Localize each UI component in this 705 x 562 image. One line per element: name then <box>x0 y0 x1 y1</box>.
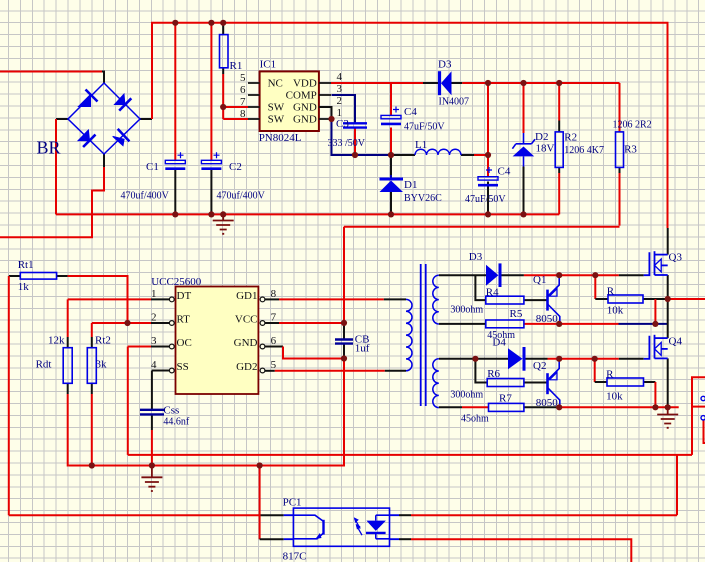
resistor R7 <box>489 403 524 411</box>
svg-text:COMP: COMP <box>286 90 317 102</box>
node edge pin circles <box>701 396 705 420</box>
UCC pin numbers <box>151 288 277 371</box>
wire D2 column <box>523 83 525 133</box>
svg-text:DT: DT <box>177 290 192 302</box>
svg-text:1uf: 1uf <box>355 343 370 355</box>
svg-text:1206 2R2: 1206 2R2 <box>613 120 652 131</box>
junction (594.7,358.8) <box>592 356 598 362</box>
bridge diode top-left <box>79 90 98 107</box>
wire top DC rail <box>152 23 668 228</box>
wire bridge right stub <box>140 118 152 120</box>
svg-text:R6: R6 <box>487 368 500 380</box>
svg-text:2: 2 <box>151 312 157 324</box>
WIRES-MID <box>9 276 692 515</box>
wire bridge left stub <box>56 118 68 120</box>
resistor R2 <box>555 132 563 168</box>
wire PC1 lower-right row <box>399 538 411 540</box>
wire Rt1 right to RT <box>57 275 68 277</box>
transformer secondary bottom winding <box>433 359 439 408</box>
svg-text:5: 5 <box>240 72 246 84</box>
wire rail A feedback <box>128 454 692 456</box>
svg-text:IC1: IC1 <box>260 59 277 71</box>
junction (259.6,465.5) <box>257 462 263 468</box>
svg-text:D3: D3 <box>438 59 452 71</box>
wire DT row <box>68 298 151 300</box>
wire pin1 node to y155 <box>332 119 392 155</box>
wire R10k-2 right <box>644 381 656 383</box>
diode D1 BYV26C <box>380 175 404 192</box>
transistor Q1 8050 <box>548 275 560 324</box>
svg-text:UCC25600: UCC25600 <box>151 276 202 288</box>
junction (667.7,299) <box>665 296 671 302</box>
wire OC column to rail A <box>127 347 129 455</box>
junction (559.2,358.8) <box>556 356 562 362</box>
transformer primary winding <box>406 299 412 370</box>
wire C3 bottom <box>354 127 356 155</box>
svg-text:470uf/400V: 470uf/400V <box>121 191 170 202</box>
svg-text:IN4007: IN4007 <box>439 97 470 108</box>
bridge rectifier BR <box>68 83 140 154</box>
svg-text:Rt2: Rt2 <box>95 335 111 347</box>
junction (223.2,22.8) <box>220 20 226 26</box>
svg-text:GD1: GD1 <box>236 290 257 302</box>
wire R10k-2 drop <box>594 359 596 382</box>
ground secondary <box>657 407 678 428</box>
transformer T1 core <box>421 264 426 406</box>
svg-text:R7: R7 <box>499 393 512 405</box>
resistor Rdt 12k <box>63 348 72 384</box>
junction (223.2,214.4) <box>220 211 226 217</box>
capacitor C4 second <box>478 167 498 185</box>
svg-text:3: 3 <box>151 335 157 347</box>
svg-text:C4: C4 <box>498 166 511 178</box>
svg-text:4: 4 <box>337 71 343 83</box>
wire R3 top lead <box>619 83 621 132</box>
wire Css top lead <box>151 371 153 410</box>
WIRES-RIGHT <box>439 228 705 455</box>
svg-text:Q4: Q4 <box>669 336 683 348</box>
wire pin2 elbow <box>319 107 332 119</box>
junction (655.4,323.9) <box>652 321 658 327</box>
mosfet Q3 <box>644 251 668 275</box>
svg-text:PN8024L: PN8024L <box>259 132 302 144</box>
svg-text:7: 7 <box>271 312 277 324</box>
transistor Q2 8050 <box>548 359 560 408</box>
wire C4a column <box>390 83 392 115</box>
wire R10k-1 drop <box>594 275 596 299</box>
junction (211.4,22.8) <box>208 20 214 26</box>
wire R7 left <box>439 406 462 408</box>
svg-text:8: 8 <box>271 288 277 300</box>
UCC pin circles <box>169 297 264 373</box>
svg-text:47uF/50V: 47uF/50V <box>465 194 506 205</box>
wire D1 leads <box>390 155 392 179</box>
svg-text:D2: D2 <box>535 131 548 143</box>
junction (175.3,214.4) <box>172 211 178 217</box>
svg-text:R5: R5 <box>510 308 523 320</box>
svg-text:3k: 3k <box>96 359 108 371</box>
svg-text:Css: Css <box>163 405 179 417</box>
wire Css bottom lead <box>151 414 153 430</box>
svg-text:SW: SW <box>268 102 285 114</box>
PC1 light arrowheads <box>354 517 359 523</box>
svg-text:GND: GND <box>234 337 258 349</box>
diode D3 IN4007 <box>440 71 452 95</box>
wire R1 bottom to pins 7-8 <box>222 68 224 74</box>
wire right edge stub <box>704 421 705 444</box>
svg-text:300ohm: 300ohm <box>450 305 483 316</box>
wire ground row B <box>68 465 343 467</box>
svg-text:Q1: Q1 <box>533 274 546 286</box>
junction (559.2,407.3) <box>556 404 562 410</box>
wire RT row <box>92 322 151 324</box>
svg-text:C1: C1 <box>146 161 159 173</box>
wire Rt2 bottom lead <box>91 383 93 394</box>
svg-text:RT: RT <box>177 313 191 325</box>
wire VCC rail y226.7 <box>344 226 620 228</box>
optocoupler PC1 817C <box>293 508 389 546</box>
svg-text:C2: C2 <box>229 161 242 173</box>
svg-text:1k: 1k <box>18 281 30 293</box>
wire R5 left <box>439 323 486 325</box>
wire R6 right <box>524 382 548 384</box>
junction (127.5,323) <box>124 320 130 326</box>
wire R2 column <box>558 83 560 121</box>
bridge diode bottom-right <box>113 129 130 146</box>
svg-text:GND: GND <box>293 114 317 126</box>
junction (344,358.5) <box>341 355 347 361</box>
zener D2 18V <box>512 133 535 167</box>
wire R7 right rail <box>524 406 559 408</box>
svg-text:300ohm: 300ohm <box>450 390 483 401</box>
wire pin6 GND path <box>265 346 283 348</box>
resistor Rt1 <box>20 273 56 280</box>
wire VCC column x344 <box>343 227 345 323</box>
svg-text:18V: 18V <box>536 143 555 155</box>
svg-text:6: 6 <box>240 84 246 96</box>
svg-text:SS: SS <box>177 361 189 373</box>
PC1 blue pin tips <box>284 515 399 539</box>
wire AC input left <box>0 71 102 73</box>
junction (344,322.9) <box>341 320 347 326</box>
wire R4 left <box>475 275 485 300</box>
wire COMP to C3 <box>332 95 356 123</box>
junction (211.4,214.4) <box>208 211 214 217</box>
svg-text:10k: 10k <box>606 391 623 403</box>
svg-text:R4: R4 <box>486 287 499 299</box>
svg-text:R2: R2 <box>564 132 577 144</box>
junction (175.3,22.8) <box>172 20 178 26</box>
resistor R 10k first <box>608 295 643 303</box>
resistor R6 <box>487 379 524 387</box>
PC1 transistor arrow <box>315 533 321 539</box>
resistor R 10k second <box>607 378 644 386</box>
junction (488,155) <box>485 152 491 158</box>
diode D3 output <box>486 263 500 287</box>
wire C2 top <box>210 23 212 161</box>
wire Rt2 top lead <box>91 323 93 337</box>
wire D3 out <box>502 274 524 276</box>
wire secondary1 top lead <box>439 274 486 276</box>
svg-text:R: R <box>606 369 614 381</box>
svg-text:GND: GND <box>293 102 317 114</box>
junction (223.2,107) <box>220 104 226 110</box>
capacitor C1 <box>165 152 185 169</box>
wire PC1 upper-right row <box>399 514 411 516</box>
svg-text:2: 2 <box>337 95 343 107</box>
wire Rdt bottom lead <box>67 383 69 394</box>
wire pin5 GD2 row <box>265 370 275 372</box>
svg-text:3: 3 <box>337 83 343 95</box>
junction (355,155) <box>352 152 358 158</box>
capacitor CB <box>335 340 353 344</box>
transformer secondary top winding <box>433 275 439 324</box>
capacitor C2 <box>201 152 221 169</box>
capacitor C3 <box>343 123 367 127</box>
svg-text:GD2: GD2 <box>236 361 257 373</box>
wire PC1 feedback column x677 <box>676 455 678 515</box>
svg-text:R: R <box>607 286 615 298</box>
svg-text:12k: 12k <box>48 335 65 347</box>
wire C1 top <box>174 23 176 161</box>
junction (331.5,119) <box>328 116 334 122</box>
wire SS row <box>152 370 169 372</box>
svg-text:VCC: VCC <box>235 313 258 325</box>
ground control <box>141 466 162 492</box>
inductor L1 <box>415 149 461 155</box>
svg-text:5: 5 <box>271 359 277 371</box>
svg-text:45ohm: 45ohm <box>461 414 489 425</box>
junction (391,155) <box>388 152 394 158</box>
junction (667.7,407.3) <box>665 404 671 410</box>
svg-text:L1: L1 <box>415 139 427 151</box>
wire secondary2 top lead <box>439 358 508 360</box>
wire GND column x344 <box>343 323 345 339</box>
wire R4 right <box>524 299 548 301</box>
svg-text:VDD: VDD <box>293 78 317 90</box>
wire L1 leads <box>391 154 415 156</box>
svg-text:D3: D3 <box>469 251 483 263</box>
capacitor C4 first <box>381 107 401 124</box>
resistor R3 <box>616 132 624 168</box>
svg-text:8: 8 <box>240 108 246 120</box>
mosfet Q4 <box>644 335 668 359</box>
junction (91.8,465.5) <box>89 462 95 468</box>
wire primary ground rail y214 <box>56 213 559 215</box>
op-amp IC1 PN8024L <box>259 59 319 145</box>
wire left column to rail <box>55 119 57 214</box>
diode D4 output <box>508 347 524 371</box>
wire OC row <box>128 346 151 348</box>
IC1 pin numbers <box>240 71 343 120</box>
wire bridge bottom stub <box>103 154 105 167</box>
svg-text:8050: 8050 <box>536 397 559 409</box>
svg-text:Q2: Q2 <box>533 360 546 372</box>
wire Rdt top lead <box>67 299 69 337</box>
svg-text:NC: NC <box>268 78 283 90</box>
wire right edge out <box>692 377 705 455</box>
svg-text:817C: 817C <box>283 551 307 562</box>
resistor Rt2 3k <box>87 348 96 384</box>
junction (559.2,323.9) <box>556 321 562 327</box>
bridge diode top-right <box>115 94 132 111</box>
svg-text:Q3: Q3 <box>669 252 683 264</box>
wire R3 bottom lead <box>619 167 621 173</box>
wire R5 right <box>524 323 619 325</box>
svg-text:BR: BR <box>37 138 61 158</box>
wire PC1 lower-left column <box>259 466 261 540</box>
wire R6 left <box>475 359 487 383</box>
svg-text:R3: R3 <box>624 144 637 156</box>
wire C1 bottom lead <box>174 170 176 215</box>
svg-text:R1: R1 <box>230 60 243 72</box>
wire pin8 GD1 row <box>265 298 279 300</box>
junction (151.9,465.5) <box>149 462 155 468</box>
resistor R4 <box>486 296 524 304</box>
junction (523.5,83) <box>520 80 526 86</box>
svg-text:OC: OC <box>177 337 192 349</box>
wire C2 bottom lead <box>210 170 212 215</box>
svg-text:PC1: PC1 <box>283 497 302 509</box>
wire pin7 VCC row <box>265 322 279 324</box>
ground primary <box>213 214 234 233</box>
svg-text:C4: C4 <box>404 106 417 118</box>
svg-text:D4: D4 <box>492 337 506 349</box>
svg-text:44.6nf: 44.6nf <box>163 417 190 428</box>
bridge diode bottom-left <box>78 130 95 147</box>
svg-text:D1: D1 <box>404 179 417 191</box>
PC1 led triangle <box>366 521 386 531</box>
resistor R5 <box>486 320 524 328</box>
wire bridge top stub <box>102 72 104 84</box>
wire bridge bottom staircase <box>0 167 104 237</box>
svg-text:C3: C3 <box>336 118 349 130</box>
junction (391,214.4) <box>388 211 394 217</box>
svg-text:8050: 8050 <box>536 313 559 325</box>
wire feedback column x8.8 <box>8 276 10 515</box>
svg-text:1206 4K7: 1206 4K7 <box>564 145 604 156</box>
wire R1 top lead <box>222 23 224 35</box>
svg-text:Rt1: Rt1 <box>18 259 34 271</box>
IC1 pin stubs <box>248 83 331 119</box>
junction (559.2,275.2) <box>556 272 562 278</box>
wire R10k-1 right <box>643 298 668 300</box>
svg-text:47uF/50V: 47uF/50V <box>404 122 445 133</box>
wire C4b column <box>487 83 489 155</box>
junction (655.4,407.3) <box>652 404 658 410</box>
svg-text:470uf/400V: 470uf/400V <box>217 191 266 202</box>
svg-text:SW: SW <box>268 114 285 126</box>
wire PC1 upper row <box>9 514 260 516</box>
junction (523.5,214.4) <box>520 211 526 217</box>
junction (559.2,83) <box>556 80 562 86</box>
IC U2 UCC25600 <box>151 276 258 394</box>
svg-text:Rdt: Rdt <box>36 359 52 371</box>
junction (475.4,358.8) <box>472 356 478 362</box>
wire VDD rail y83 <box>331 82 423 84</box>
junction (488,83) <box>485 80 491 86</box>
junction (488,214.4) <box>485 211 491 217</box>
wire x655 drop <box>654 299 656 324</box>
WIRES-BOTTOM <box>9 455 677 562</box>
svg-text:10k: 10k <box>607 305 624 317</box>
capacitor Css <box>140 410 164 415</box>
WIRES-TOP <box>0 23 668 323</box>
resistor R1 <box>220 35 229 68</box>
svg-text:7: 7 <box>240 96 246 108</box>
wire mosfet column <box>667 228 669 255</box>
junction (595.3,275.2) <box>592 272 598 278</box>
svg-text:1: 1 <box>151 288 157 300</box>
svg-text:333 /50V: 333 /50V <box>328 138 366 149</box>
wire right edge tap <box>692 406 705 408</box>
wire Rt1 left lead <box>9 275 20 277</box>
wire D4 out <box>526 358 548 360</box>
svg-text:BYV26C: BYV26C <box>404 193 442 204</box>
svg-text:6: 6 <box>271 335 277 347</box>
svg-text:4: 4 <box>151 359 157 371</box>
